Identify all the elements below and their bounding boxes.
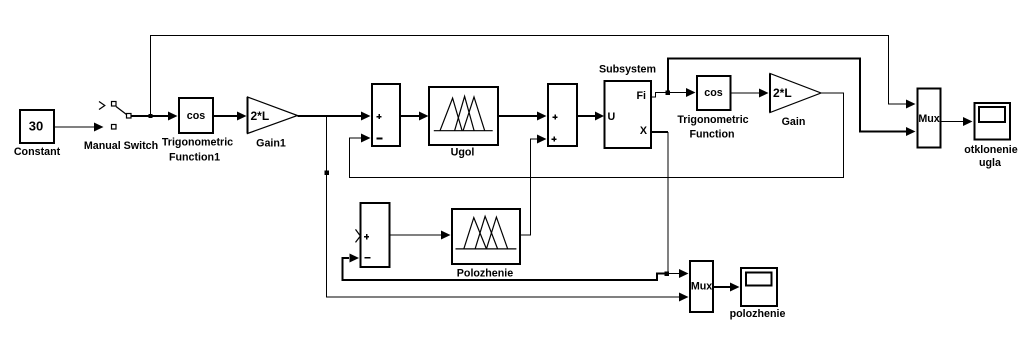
svg-text:U: U [608,111,616,123]
svg-text:30: 30 [29,119,43,134]
wire junction to cos2 [668,92,686,94]
trigonometric function block (cos2) [697,76,731,110]
wire Sum2 to Subsystem [577,115,595,117]
svg-text:Manual Switch: Manual Switch [84,140,158,152]
wire feedback line A to Mux1 top input [151,36,907,117]
scope otklonenie ugla [975,103,1011,140]
wire branch down to Mux2 bottom input [327,116,680,297]
wire line B: junction up, across, down to Mux1 bottom input [668,59,906,132]
wire Mux1 to scope [941,121,964,123]
trigonometric function1 block (cos) [179,98,213,133]
wire gain feedback into Sum1 minus [350,93,844,178]
wire Fi output to junction [651,93,668,98]
gain Gain1 triangle [248,97,298,134]
svg-text:Constant: Constant [14,146,61,158]
wire Gain1 to Sum1 [298,115,362,117]
svg-text:Mux: Mux [918,113,939,125]
svg-text:cos: cos [187,110,205,122]
plus sign [364,234,369,239]
constant block Constant [20,110,54,143]
wire Sum3 to Polozhenie [390,234,442,236]
wire cos2 to Gain [731,92,760,94]
wire switch output to cos block [131,115,168,117]
plus sign top [552,114,557,119]
sum Sum3 [361,203,390,267]
wire cos to Gain1 [213,115,237,117]
fuzzy controller Polozhenie [452,209,520,264]
fuzzy controller Ugol [429,87,498,145]
svg-text:cos: cos [704,87,722,99]
svg-text:polozhenie: polozhenie [730,308,786,320]
svg-text:2*L: 2*L [251,109,270,123]
svg-text:Trigonometric: Trigonometric [677,114,748,126]
plus sign bottom [551,136,556,141]
svg-text:Function1: Function1 [169,152,220,164]
svg-text:otklonenie: otklonenie [964,144,1017,156]
wire Subsystem X output right and down [651,131,668,133]
mux Mux2 [690,261,713,312]
node dot at Fi branch [666,91,671,96]
svg-text:ugla: ugla [979,157,1002,169]
svg-text:Function: Function [689,129,734,141]
svg-text:Ugol: Ugol [451,147,475,159]
minus sign [377,137,383,139]
sum Sum2 [548,84,577,146]
wire Constant to Manual Switch [54,126,94,128]
node junction at switch output branch [149,114,153,118]
svg-text:Fi: Fi [637,90,647,102]
svg-text:Trigonometric: Trigonometric [162,137,233,149]
scope polozhenie [741,268,777,306]
wire Mux2 to scope2 [713,286,730,288]
wire junction to Mux2 top input [668,273,679,275]
wire junction to Sum3 minus [343,258,667,280]
sum Sum1 [372,84,400,146]
node dot on vertical branch [325,171,330,176]
manual switch Manual Switch [99,102,131,130]
svg-text:Subsystem: Subsystem [599,64,656,76]
wire Sum1 to Ugol [400,115,419,117]
unconnected port chevron [356,229,361,242]
svg-text:2*L: 2*L [773,86,792,100]
svg-text:Mux: Mux [691,281,712,293]
node dot at X branch [665,272,670,277]
svg-text:Gain: Gain [782,116,806,128]
wire Ugol to Sum2 [498,115,537,117]
mux Mux1 [918,89,941,148]
gain Gain triangle [770,74,821,113]
wire Polozhenie output up into Sum2 lower plus [520,139,537,235]
minus sign [364,257,370,259]
plus sign [377,114,382,119]
svg-text:X: X [640,125,648,137]
svg-text:Polozhenie: Polozhenie [457,268,513,280]
subsystem block [605,81,652,148]
svg-text:Gain1: Gain1 [256,138,286,150]
